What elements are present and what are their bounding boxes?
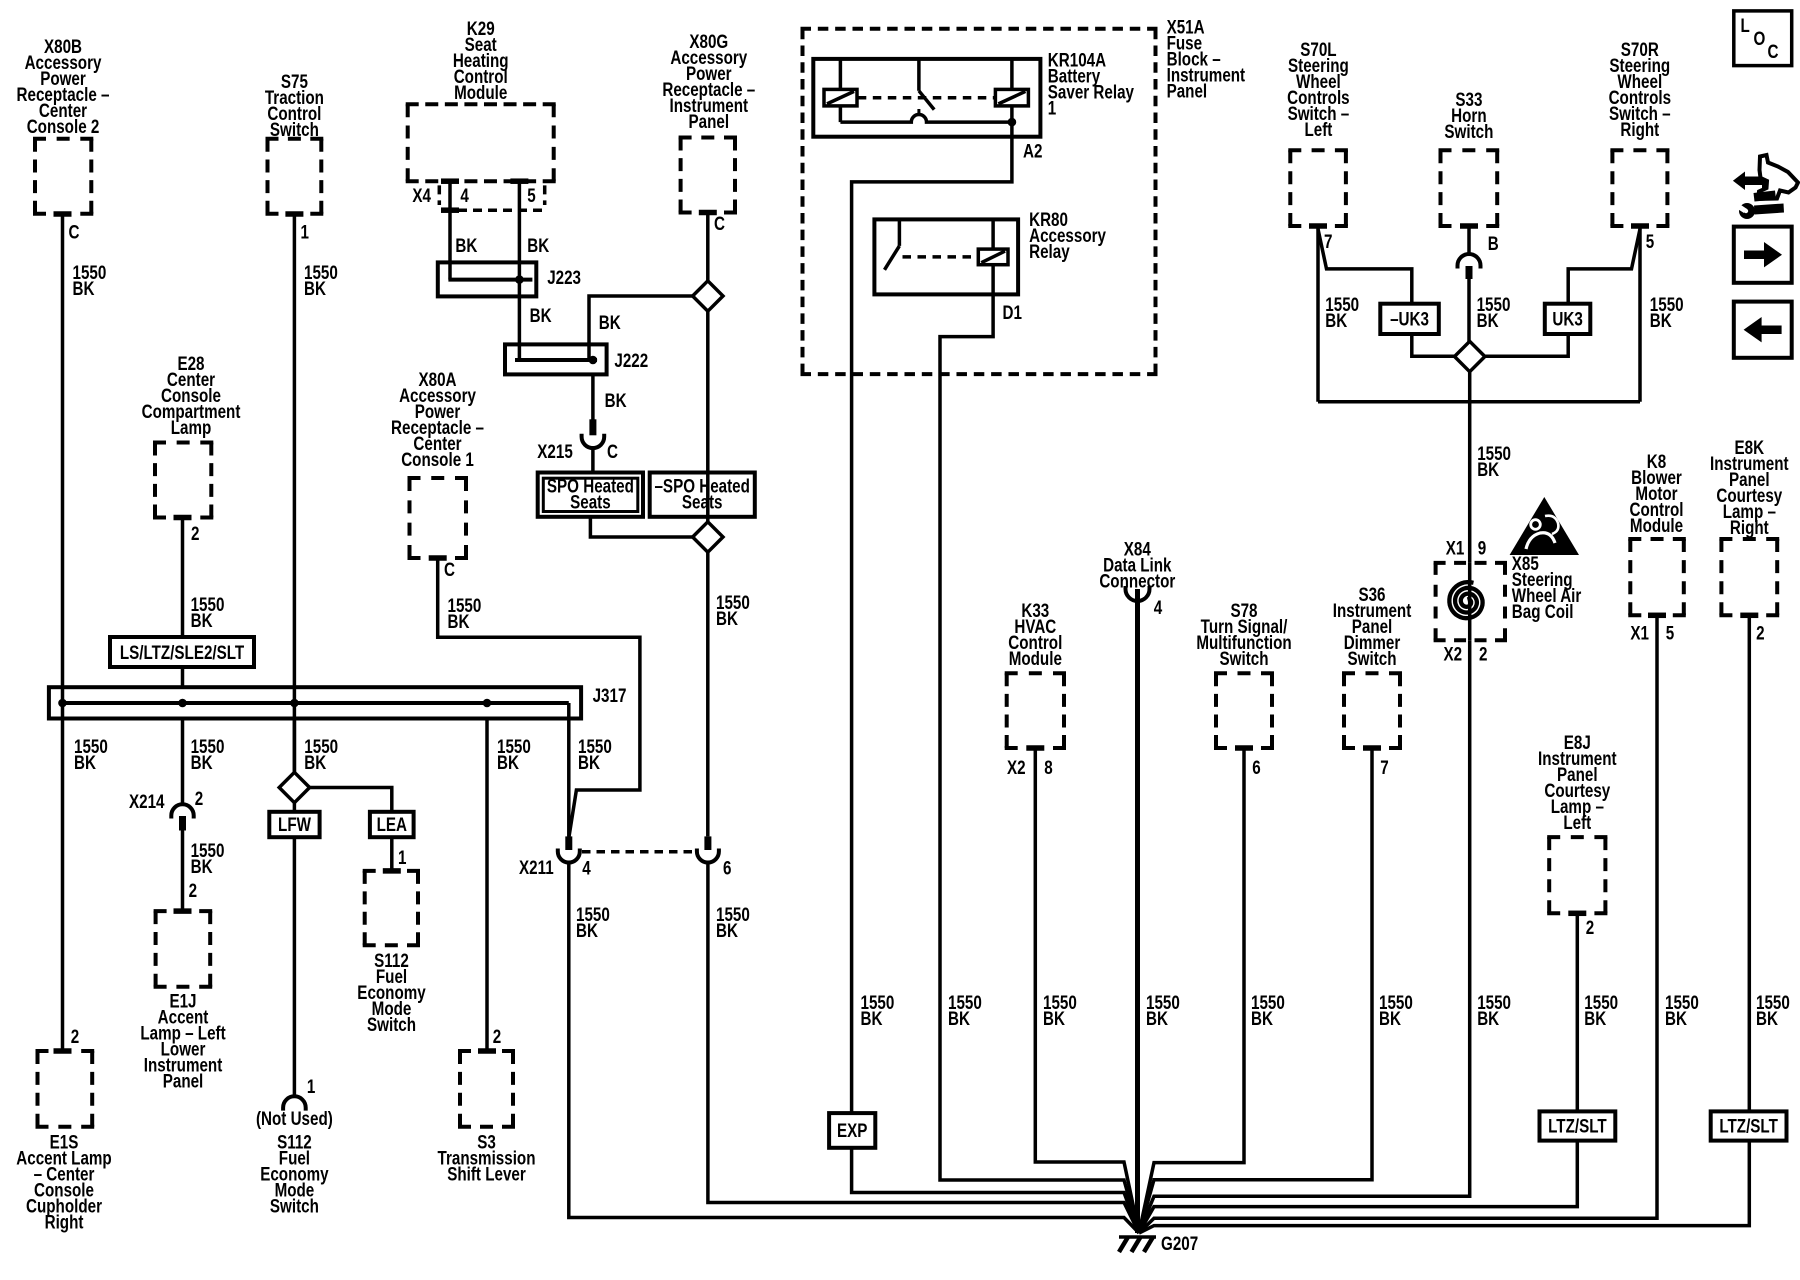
svg-text:D1: D1: [1003, 301, 1023, 323]
wire from SPO Heated Seats box to splice diamond: [590, 517, 692, 537]
pin C of X80G: [699, 210, 726, 235]
connector X4 of K29: [412, 184, 544, 210]
wire BK from X80G branch into J222: [589, 296, 693, 360]
label 1550 BK (E28 wire below J317): [191, 735, 225, 773]
svg-text:Console 2: Console 2: [27, 115, 100, 137]
wire 1550 BK from S70R 5 down to junction: [1638, 226, 1642, 402]
svg-text:C: C: [444, 558, 455, 580]
module K29 Seat Heating Control Module: [406, 17, 556, 181]
label 1550 BK (X80A wire): [448, 594, 482, 632]
wire 1550 BK X80G C down to X211 pin 6: [706, 213, 710, 837]
svg-text:A2: A2: [1023, 140, 1043, 162]
svg-text:LS/LTZ/SLE2/SLT: LS/LTZ/SLE2/SLT: [120, 641, 245, 663]
svg-text:–UK3: –UK3: [1390, 308, 1429, 330]
svg-text:BK: BK: [1665, 1007, 1687, 1029]
pin 5 of S70R: [1631, 223, 1654, 252]
junction dot J317 at X80B wire: [58, 699, 67, 708]
label 1550 BK (E28 wire): [191, 593, 225, 631]
svg-text:9: 9: [1478, 537, 1487, 559]
option label LS/LTZ/SLE2/SLT: [110, 637, 254, 667]
label 1550 BK (X211-4 lower): [576, 903, 610, 941]
svg-text:BK: BK: [191, 751, 213, 773]
option label -UK3: [1380, 304, 1439, 334]
switch S75 Traction Control Switch: [265, 70, 324, 214]
switch S36 Instrument Panel Dimmer Switch: [1333, 583, 1412, 748]
wire 1550 BK from J317 to X214: [181, 719, 185, 805]
junction dot in KR104A: [1008, 118, 1017, 127]
wire branch from S70R 5 through UK3: [1568, 229, 1640, 304]
pin 2 of E8K: [1740, 613, 1764, 644]
wire 1550 BK from X80B C to E1S 2: [61, 214, 65, 1051]
svg-text:UK3: UK3: [1552, 308, 1583, 330]
svg-text:2: 2: [191, 522, 200, 544]
svg-text:4: 4: [582, 857, 591, 879]
wire from S33 B to connector: [1467, 226, 1471, 254]
pin 4 of K29: [441, 178, 469, 213]
wire from LEA to S112 pin 1: [390, 837, 394, 871]
wire 1550 BK from KR80 D1 to G207: [940, 294, 1139, 1233]
svg-text:Connector: Connector: [1099, 570, 1175, 592]
svg-text:X215: X215: [537, 440, 573, 462]
label 1550 BK (S78 wire): [1251, 991, 1285, 1029]
label BK (branch into J222): [599, 311, 621, 333]
pin A2 of fuse block: [1023, 140, 1043, 162]
label 1550 BK (K33 wire): [1043, 991, 1077, 1029]
svg-text:BK: BK: [948, 1007, 970, 1029]
svg-text:Switch: Switch: [367, 1013, 416, 1035]
wire 1550 BK from X80A C to X211 pin 4: [438, 558, 640, 838]
module K33 HVAC Control Module: [1005, 599, 1066, 748]
label (Not Used) S112 Fuel Economy Mode Switch: [256, 1107, 333, 1217]
svg-text:Right: Right: [1620, 118, 1659, 140]
svg-text:C: C: [607, 440, 618, 462]
svg-text:8: 8: [1044, 756, 1053, 778]
option label LTZ/SLT (E8J): [1540, 1111, 1616, 1140]
junction dot J317 at S3 wire: [483, 699, 492, 708]
switch S70R Steering Wheel Controls Switch - Right: [1609, 38, 1671, 226]
svg-text:X4: X4: [412, 184, 431, 206]
svg-text:O: O: [1754, 27, 1766, 49]
svg-text:2: 2: [1479, 643, 1488, 665]
svg-text:Console 1: Console 1: [401, 448, 474, 470]
pin 2 of E8J: [1568, 911, 1594, 939]
label 1550 BK (S33 wire): [1477, 293, 1511, 331]
icon arrow left box: [1734, 302, 1792, 358]
pin 7 of S70L: [1309, 223, 1332, 252]
svg-text:1: 1: [1048, 97, 1057, 119]
wire 1550 BK from K33 to G207: [1035, 748, 1139, 1233]
wire 1550 BK from E8K 2 to LTZ/SLT label: [1748, 615, 1752, 1111]
svg-text:BK: BK: [1379, 1007, 1401, 1029]
svg-text:BK: BK: [1477, 1007, 1499, 1029]
pin X2 8 of K33: [1007, 745, 1053, 778]
pin 2 of E28: [174, 515, 200, 545]
splice diamond (steering wheel grounds): [1455, 341, 1485, 371]
label 1550 BK (air bag coil wire upper): [1477, 442, 1511, 480]
wire from S75 column through J317 to splice diamond: [293, 719, 297, 773]
inline connector X215 pin C: [537, 419, 618, 462]
svg-text:Seats: Seats: [570, 491, 611, 513]
label 1550 BK (X84 wire): [1146, 991, 1180, 1029]
svg-text:BK: BK: [73, 277, 95, 299]
pin 2 of S3: [478, 1025, 501, 1054]
junction dot J317 at S75 wire: [290, 699, 299, 708]
wire from splice diamond to junction: [1468, 372, 1472, 402]
svg-text:Module: Module: [1009, 647, 1062, 669]
svg-text:2: 2: [71, 1025, 80, 1047]
svg-text:Panel: Panel: [689, 110, 730, 132]
svg-text:C: C: [714, 212, 725, 234]
label 1550 BK (S3 wire): [497, 735, 531, 773]
svg-text:EXP: EXP: [837, 1119, 868, 1141]
label BK (pin 5 wire): [527, 234, 549, 256]
label 1550 BK (K8 wire): [1665, 991, 1699, 1029]
svg-text:X211: X211: [519, 856, 554, 878]
switch S112 Fuel Economy Mode Switch: [357, 871, 426, 1036]
svg-text:X1: X1: [1630, 622, 1649, 644]
label 1550 BK (E8J wire): [1584, 991, 1618, 1029]
svg-text:5: 5: [527, 184, 536, 206]
svg-text:Switch: Switch: [270, 1195, 319, 1217]
svg-text:Lamp: Lamp: [171, 416, 212, 438]
junction dot in J223: [515, 275, 524, 284]
svg-text:J223: J223: [547, 266, 581, 288]
lamp E1J Accent Lamp - Left Lower Instrument Panel: [140, 911, 225, 1092]
svg-text:4: 4: [1154, 596, 1163, 618]
svg-text:G207: G207: [1161, 1232, 1198, 1254]
svg-text:BK: BK: [455, 234, 477, 256]
svg-text:1: 1: [301, 221, 310, 243]
svg-text:BK: BK: [1477, 309, 1499, 331]
junction dot J317 at E28 wire: [178, 699, 187, 708]
lamp E8K Instrument Panel Courtesy Lamp - Right: [1710, 436, 1789, 615]
icon arrow right box: [1734, 227, 1792, 283]
wire 1550 BK from S36 7 to G207: [1139, 748, 1372, 1233]
label 1550 BK (X211-6 lower): [716, 903, 750, 941]
wire 1550 BK from K8 to G207: [1139, 615, 1657, 1233]
svg-text:Switch: Switch: [1220, 647, 1269, 669]
svg-text:BK: BK: [1650, 309, 1672, 331]
svg-text:L: L: [1741, 14, 1751, 36]
inline connector X211 pin 6: [697, 836, 732, 879]
svg-text:(Not Used): (Not Used): [256, 1107, 333, 1129]
svg-text:BK: BK: [448, 610, 470, 632]
pin 7 of S36: [1363, 745, 1389, 778]
inline connector at S33 B: [1458, 254, 1481, 279]
svg-text:BK: BK: [304, 277, 326, 299]
switch S70L Steering Wheel Controls Switch - Left: [1287, 38, 1349, 226]
pin 5 of K29: [510, 178, 536, 206]
pin B of S33: [1460, 223, 1499, 254]
label 1550 BK (S70L wire): [1325, 293, 1359, 331]
pin X1 9 of air bag coil: [1446, 537, 1487, 559]
switch S3 Transmission Shift Lever: [438, 1051, 536, 1185]
svg-text:6: 6: [1252, 756, 1261, 778]
pin 2 of E1J: [174, 879, 198, 914]
svg-text:Shift Lever: Shift Lever: [447, 1163, 526, 1185]
option label UK3: [1545, 304, 1591, 334]
label 1550 BK (S36 wire): [1379, 991, 1413, 1029]
inline connector X211 pin 4: [519, 836, 591, 879]
svg-text:BK: BK: [1146, 1007, 1168, 1029]
svg-text:J317: J317: [593, 684, 627, 706]
label 1550 BK (X214 to E1J): [191, 839, 225, 877]
wire from S33 connector to splice diamond: [1467, 279, 1471, 342]
svg-text:BK: BK: [1584, 1007, 1606, 1029]
svg-text:2: 2: [189, 879, 198, 901]
option label LFW: [269, 812, 319, 837]
wire 1550 BK from E28 2 to J317: [181, 518, 185, 638]
connector X84 Data Link Connector: [1099, 538, 1175, 619]
label 1550 BK (S75 wire top): [304, 261, 338, 299]
svg-text:BK: BK: [578, 751, 600, 773]
svg-text:2: 2: [1756, 622, 1765, 644]
svg-text:1: 1: [398, 846, 407, 868]
svg-text:BK: BK: [527, 234, 549, 256]
svg-text:BK: BK: [716, 607, 738, 629]
svg-text:BK: BK: [576, 919, 598, 941]
pin 1 of S75: [285, 211, 309, 243]
wire branch from S70L 7 through -UK3: [1318, 229, 1412, 304]
wire BK from J222 to X215: [591, 375, 595, 422]
wire from X215 to SPO Heated Seats box: [591, 446, 595, 473]
svg-text:4: 4: [460, 184, 469, 206]
connector body X211 dashed line: [582, 850, 696, 854]
svg-text:1: 1: [307, 1075, 316, 1097]
connector E28 Center Console Compartment Lamp: [142, 352, 241, 517]
svg-text:X2: X2: [1007, 756, 1026, 778]
svg-text:BK: BK: [1325, 309, 1347, 331]
svg-text:B: B: [1488, 232, 1499, 254]
wire BK from K29 pin 5 through J223: [518, 181, 522, 360]
splice pack J317: [49, 684, 627, 718]
lamp E8J Instrument Panel Courtesy Lamp - Left: [1538, 731, 1617, 913]
svg-text:Right: Right: [45, 1211, 84, 1233]
svg-text:X2: X2: [1444, 643, 1463, 665]
pin 2 of E1S: [54, 1025, 80, 1054]
label 1550 BK (S75 wire below J317): [304, 735, 338, 773]
wire 1550 BK from X211 4 to G207: [569, 863, 1139, 1234]
label BK (J222 to X215): [605, 389, 627, 411]
wire BK from K29 pin 4 to J223: [448, 181, 452, 279]
wire 1550 BK from J317 to S3: [485, 719, 489, 1052]
label 1550 BK (air bag coil wire lower): [1477, 991, 1511, 1029]
option label EXP: [829, 1113, 875, 1148]
wire 1550 BK from X84 4 to G207: [1135, 589, 1140, 1233]
svg-text:Saver Relay: Saver Relay: [1048, 81, 1134, 103]
wire branch from diamond to LEA: [310, 788, 392, 812]
fuse block X51A Fuse Block - Instrument Panel: [801, 16, 1246, 374]
svg-text:5: 5: [1666, 622, 1675, 644]
svg-text:C: C: [69, 221, 80, 243]
option label LEA: [370, 812, 414, 837]
svg-text:BK: BK: [599, 311, 621, 333]
label 1550 BK (X80G wire): [716, 591, 750, 629]
splice diamond (lower, heated seats rejoin): [693, 522, 723, 552]
ground G207: [1119, 1232, 1198, 1254]
switch S33 Horn Switch: [1439, 88, 1500, 226]
wire from LFW down to unused S112 connector: [293, 837, 297, 1096]
svg-text:BK: BK: [716, 919, 738, 941]
svg-text:C: C: [1768, 40, 1779, 62]
pin 6 of S78: [1235, 745, 1261, 778]
svg-text:BK: BK: [497, 751, 519, 773]
svg-text:BK: BK: [1756, 1007, 1778, 1029]
svg-text:Module: Module: [1630, 514, 1683, 536]
unused inline connector (S112 not used): [283, 1075, 315, 1110]
label X85 Steering Wheel Air Bag Coil: [1512, 552, 1582, 622]
svg-text:BK: BK: [1043, 1007, 1065, 1029]
svg-text:BK: BK: [1477, 458, 1499, 480]
wire 1550 BK from air bag coil to G207: [1139, 640, 1470, 1233]
wire from LTZ/SLT (E8K) to G207: [1139, 1141, 1749, 1233]
switch S78 Turn Signal/Multifunction Switch: [1196, 599, 1291, 748]
svg-text:Bag Coil: Bag Coil: [1512, 600, 1574, 622]
svg-text:Left: Left: [1563, 811, 1591, 833]
svg-text:BK: BK: [191, 855, 213, 877]
pin 1 of S112: [383, 846, 407, 873]
wire 1550 BK from KR104A A2 to EXP label: [852, 137, 1012, 1113]
wire from LTZ/SLT (E8J) to G207: [1139, 1141, 1577, 1233]
svg-text:BK: BK: [861, 1007, 883, 1029]
splice diamond (upper, X80G branch): [693, 281, 723, 311]
svg-text:BK: BK: [74, 751, 96, 773]
connector X80B Accessory Power Receptacle - Center Console 2: [17, 35, 110, 214]
wire from -UK3 to splice diamond: [1412, 334, 1455, 356]
svg-text:2: 2: [493, 1025, 502, 1047]
logo LOC box: [1734, 11, 1792, 66]
wire 1550 BK from S70L 7 down to junction: [1316, 226, 1320, 402]
option box SPO Heated Seats: [538, 473, 643, 517]
relay KR104A Battery Saver Relay: [813, 49, 1134, 137]
svg-text:7: 7: [1324, 230, 1332, 252]
wire from X214 to E1J pin 2: [181, 831, 185, 912]
junction dot in J222: [589, 356, 598, 365]
svg-text:BK: BK: [530, 304, 552, 326]
wire from UK3 to splice diamond: [1485, 334, 1568, 356]
svg-text:X214: X214: [129, 790, 165, 812]
pin C of X80B: [54, 211, 80, 243]
svg-text:Left: Left: [1304, 118, 1332, 140]
wire junction bar S70L to S70R: [1318, 400, 1640, 404]
relay KR80 Accessory Relay: [874, 208, 1106, 294]
wire 1550 BK from S78 6 to G207: [1139, 748, 1244, 1233]
label 1550 BK (X80B wire below J317): [74, 735, 108, 773]
svg-text:Seats: Seats: [682, 491, 723, 513]
label 1550 BK (E8K wire): [1756, 991, 1790, 1029]
label BK (J223 to J222 wire): [530, 304, 552, 326]
label 1550 BK (S70R wire): [1650, 293, 1684, 331]
wire from J317 bus end down to X211 pin 4: [567, 703, 571, 836]
pin D1 of fuse block: [1003, 301, 1023, 323]
warning triangle (air bag): [1510, 497, 1579, 555]
svg-text:BK: BK: [191, 609, 213, 631]
svg-text:LEA: LEA: [377, 813, 408, 835]
svg-text:J222: J222: [614, 349, 648, 371]
splice J223: [438, 262, 581, 296]
label BK (pin 4 wire): [455, 234, 477, 256]
lamp E1S Accent Lamp - Center Console Cupholder Right: [16, 1051, 111, 1233]
splice J222: [505, 344, 648, 374]
svg-text:Switch: Switch: [1348, 647, 1397, 669]
svg-text:Panel: Panel: [163, 1070, 204, 1092]
module K8 Blower Motor Control Module: [1628, 450, 1686, 615]
svg-text:2: 2: [1586, 916, 1595, 938]
svg-text:BK: BK: [605, 389, 627, 411]
svg-text:Right: Right: [1730, 516, 1769, 538]
svg-text:7: 7: [1380, 756, 1388, 778]
wire from LS/LTZ/SLE2/SLT label to J317: [181, 667, 185, 687]
svg-text:Relay: Relay: [1029, 240, 1070, 262]
connector X80G Accessory Power Receptacle - Instrument Panel: [662, 30, 755, 212]
wire 1550 BK from E8J 2 to LTZ/SLT label: [1576, 913, 1580, 1111]
option box -SPO Heated Seats: [650, 473, 755, 517]
option label LTZ/SLT (E8K): [1711, 1111, 1787, 1140]
label 1550 BK (X80B wire top): [73, 261, 107, 299]
svg-text:6: 6: [723, 857, 732, 879]
wire from EXP label to G207: [852, 1148, 1139, 1233]
inline connector X214 pin 2: [129, 787, 203, 830]
svg-text:LTZ/SLT: LTZ/SLT: [1719, 1115, 1778, 1137]
wire 1550 BK from S75 1 to LFW splice: [293, 214, 297, 812]
svg-text:LTZ/SLT: LTZ/SLT: [1548, 1115, 1607, 1137]
label 1550 BK (EXP wire): [861, 991, 895, 1029]
label 1550 BK (J317 to X211-4 wire): [578, 735, 612, 773]
svg-text:Switch: Switch: [1444, 120, 1493, 142]
svg-text:Panel: Panel: [1167, 80, 1208, 102]
svg-text:Module: Module: [454, 81, 507, 103]
svg-text:BK: BK: [1251, 1007, 1273, 1029]
svg-text:2: 2: [195, 787, 204, 809]
coil X85 Steering Wheel Air Bag Coil: [1434, 563, 1507, 640]
svg-text:LFW: LFW: [278, 813, 311, 835]
icon hand with double arrow: [1733, 155, 1798, 219]
connector X80A Accessory Power Receptacle - Center Console 1: [391, 368, 484, 558]
svg-text:X1: X1: [1446, 537, 1465, 559]
splice diamond (LFW/LEA branch): [279, 772, 309, 802]
pin C of X80A: [429, 555, 456, 580]
pin X1 5 of K8: [1630, 613, 1674, 644]
label 1550 BK (KR80 wire): [948, 991, 982, 1029]
wire 1550 BK down to steering wheel air bag coil: [1468, 402, 1472, 563]
pin X2 2 of air bag coil: [1444, 643, 1488, 665]
svg-text:BK: BK: [304, 751, 326, 773]
wire 1550 BK from X211 6 to G207: [708, 863, 1139, 1234]
svg-text:5: 5: [1646, 230, 1655, 252]
